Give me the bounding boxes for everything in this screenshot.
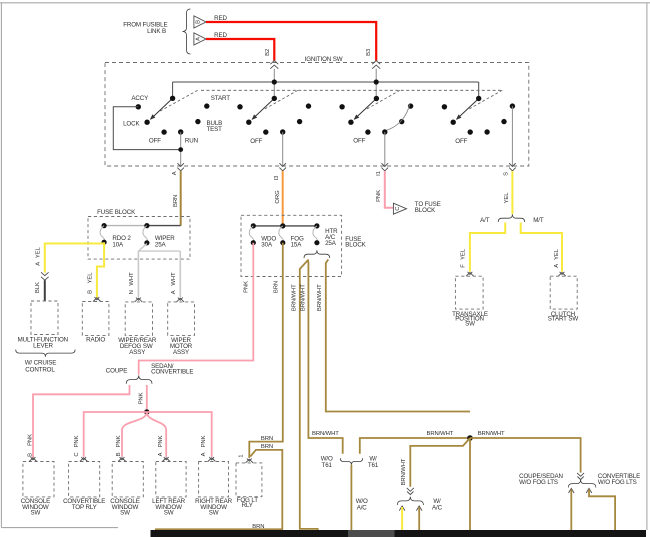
wire PNK to convertible top rly xyxy=(84,412,147,457)
wire YEL a/c left to bottom xyxy=(401,507,403,530)
svg-text:BRN/WHT: BRN/WHT xyxy=(317,284,323,311)
svg-text:SW: SW xyxy=(31,510,41,517)
connector entry chevrons B3 xyxy=(372,61,380,69)
gang1 mechanical link diagonal xyxy=(158,90,198,112)
svg-text:BLOCK: BLOCK xyxy=(345,241,366,248)
wire gang3 RUN output xyxy=(384,132,386,166)
svg-text:PNK: PNK xyxy=(376,190,382,202)
fuse block (middle) box xyxy=(241,215,342,276)
svg-text:TOP RLY: TOP RLY xyxy=(72,504,97,511)
wire YEL A/T branch to transaxle position sw xyxy=(470,223,505,272)
wire gang1 RUN output xyxy=(180,132,182,166)
gang3 mechanical link diagonal xyxy=(365,90,400,110)
label CLUTCH START SW xyxy=(548,311,579,323)
wire gang2 RUN output xyxy=(282,132,284,166)
svg-text:I1: I1 xyxy=(376,171,382,176)
svg-text:BRN: BRN xyxy=(173,195,179,207)
switch gang 2 (ignition sw section 2) xyxy=(237,90,311,166)
wire BRN fog lts right to bottom xyxy=(589,489,615,530)
wire PNK curve to left rear window sw xyxy=(147,412,166,457)
svg-text:W/O FOG LTS: W/O FOG LTS xyxy=(519,479,558,486)
svg-text:T61: T61 xyxy=(322,462,333,469)
svg-text:B2: B2 xyxy=(265,49,271,56)
brace coupe / sedan-convertible split xyxy=(126,375,152,383)
wire YEL M/T branch to clutch start sw xyxy=(521,223,562,272)
bottom crop bar xyxy=(151,530,647,537)
svg-text:YEL: YEL xyxy=(460,248,466,260)
gang4 mechanical link diagonal xyxy=(468,90,503,110)
svg-text:1: 1 xyxy=(239,455,245,458)
brace w/ cruise control xyxy=(16,350,75,357)
gang1 wiper arm xyxy=(151,98,173,119)
brace W/O A/C W/ A/C xyxy=(397,497,423,505)
svg-text:BLK: BLK xyxy=(35,282,41,293)
svg-text:BRN/WHT: BRN/WHT xyxy=(312,431,339,437)
gang2 contact START-pos xyxy=(306,103,311,108)
svg-text:A: A xyxy=(172,171,178,175)
label WIPER MOTOR ASSY xyxy=(170,337,193,356)
radio box xyxy=(82,302,109,336)
svg-text:OFF: OFF xyxy=(149,137,161,144)
label CONSOLE WINDOW SW 1 xyxy=(21,498,50,517)
wire RED from connector B to ignition switch feed B3 xyxy=(206,22,376,61)
svg-text:SW: SW xyxy=(465,320,475,327)
label W/O A/C xyxy=(356,498,368,512)
junction bus/B2 xyxy=(272,79,277,84)
connector exit chevrons gang4 xyxy=(509,163,516,171)
svg-text:BRN: BRN xyxy=(261,444,273,450)
wire BRN branch from fog lt rly junction to bottom xyxy=(155,450,282,529)
brace for fusible link connectors xyxy=(183,9,191,54)
label MULTI-FUNCTION LEVER xyxy=(18,336,68,349)
wire gang1 ACCY to RUN leg xyxy=(113,107,180,150)
connector at clutch start sw xyxy=(558,272,566,276)
svg-text:YEL: YEL xyxy=(36,246,42,258)
svg-text:YEL: YEL xyxy=(88,272,94,284)
junction gang1 output xyxy=(178,147,183,152)
svg-text:25A: 25A xyxy=(325,240,337,247)
svg-text:FUSE BLOCK: FUSE BLOCK xyxy=(97,209,136,216)
switch gang 4 (ignition sw section 4) xyxy=(442,90,515,166)
label CONVERTIBLE W/O FOG LTS xyxy=(598,473,640,486)
fuse FOG 15A xyxy=(279,223,304,248)
wire PNK gang3 to fuse block connector xyxy=(385,171,394,208)
svg-text:WHT: WHT xyxy=(171,272,177,286)
arrow up YEL a/c left xyxy=(399,506,405,511)
switch gang 3 (ignition sw section 3) xyxy=(339,90,413,166)
brace T61 merge xyxy=(340,458,362,465)
svg-text:B: B xyxy=(116,452,122,456)
wire pivot riser gang 1 xyxy=(172,82,174,98)
svg-text:I3: I3 xyxy=(274,175,280,181)
label RIGHT REAR WINDOW SW xyxy=(195,498,232,517)
connector C to fuse block xyxy=(393,203,406,214)
gang1 contact RUN xyxy=(178,129,183,134)
svg-text:PNK: PNK xyxy=(116,435,122,447)
gang4 wiper arm xyxy=(457,99,479,120)
label FUSE BLOCK (middle) xyxy=(345,236,366,248)
svg-text:ORG: ORG xyxy=(275,190,281,204)
clutch start sw box xyxy=(550,276,577,309)
svg-text:RADIO: RADIO xyxy=(86,336,105,343)
fuse WIPER 25A xyxy=(143,223,175,248)
connector at transaxle position sw xyxy=(466,272,474,276)
svg-text:A: A xyxy=(36,262,42,266)
wire WHT to wiper/rear defog sw assy xyxy=(137,251,139,297)
connector chevrons a/c merge xyxy=(407,488,414,495)
junction bus/B3 xyxy=(374,79,379,84)
svg-text:25A: 25A xyxy=(155,241,167,248)
gang4 contact BULB-pos xyxy=(501,119,506,124)
wire YEL fuse RDO2 to radio xyxy=(97,242,104,297)
svg-text:B: B xyxy=(28,453,34,457)
connector at convertible top rly xyxy=(80,457,88,461)
transaxle position sw box xyxy=(455,276,483,309)
gang1 contact OFF xyxy=(161,129,166,134)
svg-text:BRN/WHT: BRN/WHT xyxy=(300,284,306,311)
gang2 pivot xyxy=(272,96,277,101)
svg-text:SW: SW xyxy=(120,510,130,517)
connector at radio xyxy=(93,297,101,301)
wire feed B3 into bus xyxy=(375,69,377,99)
svg-text:BRN/WHT: BRN/WHT xyxy=(291,284,297,311)
svg-text:A: A xyxy=(201,452,207,456)
wire feed B2 into bus xyxy=(273,69,275,99)
gang2 mechanical link diagonal xyxy=(263,90,298,110)
junction pink distribution xyxy=(144,409,149,414)
svg-text:OFF: OFF xyxy=(455,138,467,145)
wire RED from connector A to ignition switch feed B2 xyxy=(206,39,274,61)
gang3 contact BULB-pos xyxy=(399,119,404,124)
connector at console window sw 1 xyxy=(29,457,37,461)
svg-text:10A: 10A xyxy=(112,241,124,248)
wire BRN gang1 to fuse block xyxy=(180,171,182,226)
label WIPER/REAR DEFOG SW ASSY xyxy=(118,337,157,356)
svg-text:BRN: BRN xyxy=(252,524,264,530)
wire BRN from FOG fuse xyxy=(249,243,282,458)
svg-text:OFF: OFF xyxy=(353,138,365,145)
svg-text:SW: SW xyxy=(164,510,174,517)
label W/O T61 xyxy=(321,455,333,469)
svg-text:W/O FOG LTS: W/O FOG LTS xyxy=(598,479,637,486)
svg-text:BRN/WHT: BRN/WHT xyxy=(427,431,454,437)
svg-text:T61: T61 xyxy=(368,462,379,469)
svg-text:YEL: YEL xyxy=(504,192,510,204)
gang3 contact OFF xyxy=(365,129,370,134)
label W/ A/C xyxy=(432,498,443,512)
svg-text:ASSY: ASSY xyxy=(173,349,189,356)
brace under HTR A/C fuse xyxy=(304,250,330,258)
svg-text:WHT: WHT xyxy=(129,272,135,286)
wire BRN a/c right to bottom xyxy=(418,507,420,530)
svg-text:S: S xyxy=(504,172,510,176)
gang1 contact BULB TEST xyxy=(195,119,200,124)
gang2 contact ACCY-pos xyxy=(237,104,242,109)
svg-text:LOCK: LOCK xyxy=(123,120,140,127)
svg-text:COUPE: COUPE xyxy=(106,367,127,374)
wire ORG gang2 to fuse block xyxy=(282,171,284,226)
wire PNK to right rear window sw xyxy=(147,412,212,457)
svg-text:BRN/WHT: BRN/WHT xyxy=(478,431,505,437)
console window sw box 1 xyxy=(23,462,54,497)
gang4 contact ACCY-pos xyxy=(442,104,447,109)
connector at left rear window sw xyxy=(162,457,170,461)
gang4 contact LOCK-pos xyxy=(451,120,456,125)
svg-text:A/T: A/T xyxy=(480,217,490,224)
svg-text:RUN: RUN xyxy=(185,137,198,144)
wire fuse block bus (middle) xyxy=(253,225,317,227)
wire WHT to wiper motor assy xyxy=(179,251,181,297)
connector B (fusible link) xyxy=(194,16,206,28)
wire PNK sedan branch down xyxy=(146,385,148,412)
svg-text:TEST: TEST xyxy=(207,126,223,133)
svg-text:A: A xyxy=(196,37,202,41)
gang2 contact BULB-pos xyxy=(297,119,302,124)
wiper motor assy box xyxy=(168,302,195,336)
label TRANSAXLE POSITION SW xyxy=(452,311,488,328)
junction BRN/WHT xyxy=(467,435,473,441)
label W/ CRUISE CONTROL xyxy=(25,359,57,373)
left rear window sw box xyxy=(156,462,186,497)
gang4 contact RUN xyxy=(484,129,489,134)
svg-text:A: A xyxy=(554,264,560,268)
svg-text:LINK B: LINK B xyxy=(147,28,166,35)
wire BRN/WHT 2 (to W/O T61 stub) xyxy=(308,260,343,454)
svg-text:CONVERTIBLE: CONVERTIBLE xyxy=(151,369,193,376)
connector at console window sw 2 xyxy=(118,457,126,461)
wire BLK to multi-function lever xyxy=(44,280,46,301)
gang2 contact OFF xyxy=(263,129,268,134)
wire merged T61 down xyxy=(350,465,352,530)
connector chevrons fog lts xyxy=(577,473,584,480)
svg-text:PNK: PNK xyxy=(138,392,144,404)
connector exit chevrons gang1 xyxy=(177,163,184,171)
svg-text:YEL: YEL xyxy=(554,248,560,260)
wiper/rear defog sw assy box xyxy=(125,302,152,336)
gang4 contact OFF xyxy=(468,129,473,134)
wire BRN/WHT 3 (right brace end) xyxy=(326,260,470,412)
connector exit chevrons gang3 xyxy=(382,163,389,171)
svg-text:30A: 30A xyxy=(261,241,273,248)
svg-text:RLY: RLY xyxy=(242,502,253,509)
right rear window sw box xyxy=(199,462,229,497)
label W/ T61 xyxy=(368,455,379,469)
gang4 contact START xyxy=(510,103,515,108)
wire fuse block bus (left) xyxy=(104,225,147,227)
gang2 wiper arm xyxy=(252,98,274,119)
wire PNK curve to console window sw 2 xyxy=(122,412,147,457)
label FROM FUSIBLE LINK B xyxy=(123,22,167,35)
gang2 contact RUN xyxy=(280,129,285,134)
wire pivot riser gang 4 xyxy=(478,82,480,99)
console window sw box 2 xyxy=(112,462,143,497)
arrow up fog lts right xyxy=(586,488,592,493)
svg-text:OFF: OFF xyxy=(250,138,262,145)
svg-text:B: B xyxy=(88,290,94,294)
wire PNK coupe branch to console window sw xyxy=(33,385,130,459)
brace coupe-sedan / convertible fog lts xyxy=(568,480,596,488)
svg-text:BRN: BRN xyxy=(261,436,273,442)
wire BRN/WHT junction down to bottom xyxy=(469,438,471,530)
connector exit chevrons gang2 xyxy=(279,163,286,171)
svg-text:PNK: PNK xyxy=(244,281,250,293)
connector at wiper/rear defog sw assy xyxy=(135,298,143,302)
svg-text:B: B xyxy=(196,20,202,24)
fog lt rly box xyxy=(236,463,262,497)
label CONSOLE WINDOW SW 2 xyxy=(110,498,139,517)
svg-text:PNK: PNK xyxy=(158,435,164,447)
svg-text:PNK: PNK xyxy=(74,435,80,447)
gang2 contact LOCK-pos xyxy=(246,120,251,125)
wire WHT split from wiper fuse xyxy=(138,244,180,252)
wire BRN/WHT junction to fog lts split xyxy=(470,438,581,473)
svg-text:A: A xyxy=(171,290,177,294)
mechanical linkage dashed line xyxy=(201,89,504,91)
fuse HTR A/C 25A xyxy=(313,223,338,247)
svg-text:A/C: A/C xyxy=(357,505,368,512)
gang4 pivot xyxy=(476,96,481,101)
fuse RDO 2 10A xyxy=(100,223,131,248)
convertible top rly box xyxy=(69,462,100,497)
label CONVERTIBLE TOP RLY xyxy=(63,498,105,511)
connector at right rear window sw xyxy=(208,457,216,461)
gang3 pivot xyxy=(374,96,379,101)
switch gang 1 (ignition sw section 1) xyxy=(113,90,230,166)
gang3 contact arc RUN-START xyxy=(387,105,410,131)
brace A/T M/T split xyxy=(498,214,525,222)
wire ignition bus xyxy=(173,81,479,83)
svg-text:START SW: START SW xyxy=(548,316,579,323)
svg-text:SW: SW xyxy=(209,510,219,517)
wire PNK from WDO fuse xyxy=(139,243,254,375)
svg-text:ACCY: ACCY xyxy=(131,95,148,102)
label COUPE/SEDAN W/O FOG LTS xyxy=(519,473,563,486)
wire BRN/WHT branch to A/C connector xyxy=(410,438,470,487)
wire BRN fog lts left to bottom xyxy=(570,489,572,530)
svg-text:IGNITION SW: IGNITION SW xyxy=(305,56,343,63)
svg-text:CONTROL: CONTROL xyxy=(25,366,55,373)
label FOG LT RLY xyxy=(237,497,259,509)
svg-text:A/C: A/C xyxy=(432,505,443,512)
svg-text:B3: B3 xyxy=(366,48,372,56)
gang1 pivot xyxy=(170,96,175,101)
svg-text:LEVER: LEVER xyxy=(33,342,53,349)
ignition switch box xyxy=(105,63,529,167)
svg-text:BRN/WHT: BRN/WHT xyxy=(401,458,407,485)
label LEFT REAR WINDOW SW xyxy=(152,498,185,517)
gang3 wiper arm xyxy=(354,99,376,120)
connector A (fusible link) xyxy=(194,33,206,45)
multi-function lever box xyxy=(31,301,58,335)
svg-text:PNK: PNK xyxy=(201,435,207,447)
wire BRN/WHT 1 (slant from brace) xyxy=(300,260,318,531)
fuse block (left) box xyxy=(88,217,190,260)
fuse WDO 30A xyxy=(249,223,276,248)
svg-text:15A: 15A xyxy=(291,241,303,248)
connector at wiper motor assy xyxy=(177,298,185,302)
arrow up fog lts left xyxy=(569,488,575,493)
svg-text:N: N xyxy=(129,290,135,294)
gang1 contact LOCK xyxy=(144,120,149,125)
connector entry chevrons B2 xyxy=(270,61,278,69)
gang3 contact ACCY-pos xyxy=(339,104,344,109)
svg-text:ASSY: ASSY xyxy=(129,349,145,356)
svg-text:M/T: M/T xyxy=(533,217,544,224)
gang3 contact START-pos xyxy=(408,103,413,108)
wire gang4 START output xyxy=(511,106,513,166)
svg-text:BLOCK: BLOCK xyxy=(415,207,436,214)
arrow up BRN a/c right xyxy=(416,506,422,511)
svg-text:A: A xyxy=(158,452,164,456)
gang3 contact LOCK-pos xyxy=(348,120,353,125)
gang3 contact RUN xyxy=(382,129,387,134)
wire YEL gang4 down xyxy=(511,171,513,214)
connector chevrons multi-function lever xyxy=(41,272,49,280)
label SEDAN/ CONVERTIBLE xyxy=(151,363,193,376)
wire BRN/WHT right stub W/ T61 xyxy=(360,438,470,454)
connector at fog lt rly xyxy=(246,459,254,463)
wire YEL fuse RDO2 to multi-function lever xyxy=(45,244,104,273)
gang1 contact START xyxy=(204,103,209,108)
svg-text:BRN: BRN xyxy=(273,281,279,293)
svg-text:F: F xyxy=(460,264,466,268)
svg-text:PNK: PNK xyxy=(28,434,34,446)
svg-text:START: START xyxy=(211,95,230,102)
gang1 contact ACCY xyxy=(136,104,141,109)
